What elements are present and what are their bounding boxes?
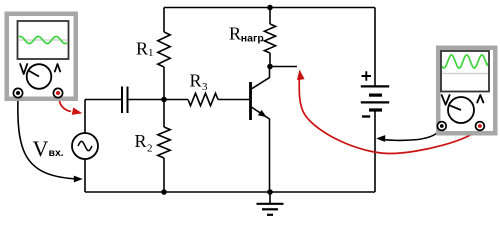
svg-text:R: R: [135, 131, 147, 151]
svg-text:вх.: вх.: [49, 147, 64, 159]
svg-text:1: 1: [148, 47, 154, 59]
svg-text:3: 3: [202, 81, 208, 93]
svg-text:2: 2: [147, 143, 153, 155]
svg-text:R: R: [229, 24, 241, 44]
svg-text:V: V: [33, 136, 49, 161]
svg-text:R: R: [136, 39, 148, 59]
svg-text:R: R: [190, 71, 202, 91]
svg-text:нагр.: нагр.: [241, 33, 267, 45]
